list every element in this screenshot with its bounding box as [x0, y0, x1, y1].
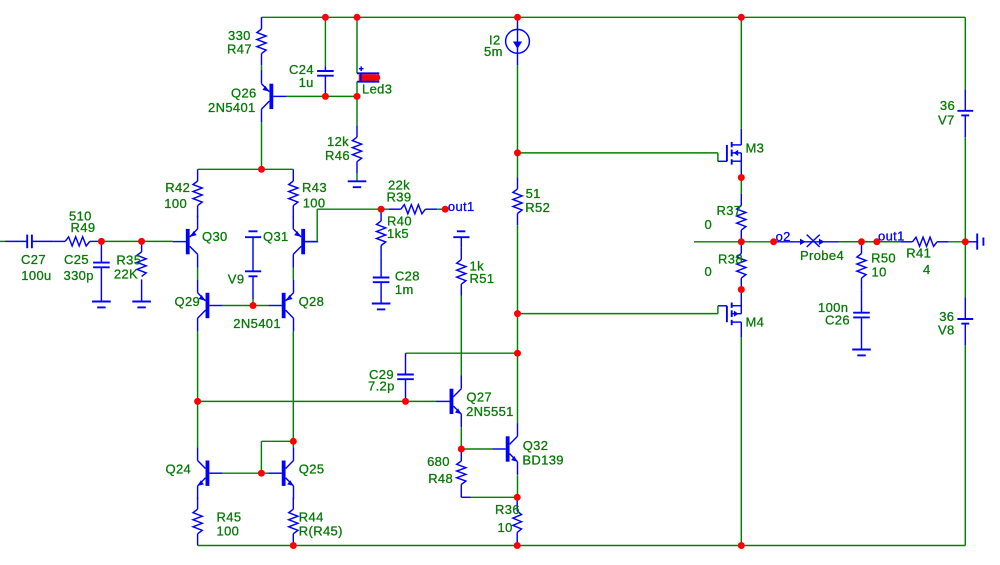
probe Probe4 — [777, 235, 901, 247]
resistor R35 — [137, 241, 146, 301]
wire mirror tie h — [261, 440, 293, 442]
wire R48 jog blue — [461, 496, 470, 498]
wire fb wire — [317, 208, 381, 210]
resistor R43 — [289, 169, 298, 217]
wire I2 down — [517, 65, 519, 153]
node R50 node — [858, 238, 865, 245]
wire Q27 emitter down — [460, 427, 462, 449]
svg-text:Q28: Q28 — [299, 294, 325, 309]
wire D down — [197, 401, 199, 447]
svg-text:100: 100 — [303, 196, 326, 211]
wire R39-out1 — [437, 208, 447, 210]
svg-text:1k5: 1k5 — [387, 226, 409, 241]
svg-text:7.2p: 7.2p — [368, 379, 395, 394]
wire Q28 base wire — [253, 305, 269, 307]
svg-text:22K: 22K — [114, 267, 138, 282]
svg-text:Q32: Q32 — [523, 438, 549, 453]
wire out stub left — [694, 241, 741, 243]
svg-text:Q24: Q24 — [166, 462, 192, 477]
node C29 bottom node — [402, 398, 409, 405]
battery output — [965, 234, 983, 250]
svg-text:BD139: BD139 — [522, 452, 564, 467]
node LED top — [354, 14, 361, 21]
svg-text:100u: 100u — [21, 268, 51, 283]
wire top rail — [262, 16, 966, 18]
wire Q29 base wire — [223, 305, 253, 307]
node rail R44 — [290, 542, 297, 549]
node M3 source node — [738, 174, 745, 181]
wire R47 top stub — [261, 17, 263, 18]
node C24 bottom — [322, 93, 329, 100]
wire right rail bottom — [964, 345, 966, 545]
svg-text:51: 51 — [526, 186, 541, 201]
svg-text:R52: R52 — [525, 200, 550, 215]
wire R48 jog — [471, 496, 518, 498]
resistor R47 — [257, 17, 266, 65]
node mirror base node — [250, 302, 257, 309]
svg-text:R(R45): R(R45) — [299, 523, 343, 538]
svg-text:1u: 1u — [299, 75, 314, 90]
node o2 node — [770, 238, 777, 245]
node fb node — [378, 206, 385, 213]
svg-text:R35: R35 — [116, 253, 141, 268]
wire Q31-Q28 col — [292, 268, 294, 280]
svg-text:R45: R45 — [217, 510, 242, 525]
node rail R36 — [514, 542, 521, 549]
resistor R51 — [457, 248, 466, 296]
node out1 node — [873, 238, 880, 245]
node out node — [738, 238, 745, 245]
node VAS bottom node — [514, 310, 521, 317]
svg-text:V7: V7 — [938, 113, 955, 128]
wire R46 top wire — [356, 96, 358, 125]
svg-text:R39: R39 — [387, 190, 412, 205]
current source I2 — [506, 17, 530, 65]
transistor Q25 — [269, 447, 294, 499]
resistor R42 — [193, 169, 202, 217]
resistor R50 — [857, 242, 866, 290]
svg-text:680: 680 — [427, 454, 450, 469]
resistor R49 — [53, 237, 101, 246]
svg-text:2N5401: 2N5401 — [208, 100, 256, 115]
wire R47-Q26 — [261, 65, 263, 71]
wire Q28 emitter down — [292, 331, 294, 441]
node out1 stub node — [442, 206, 449, 213]
led Led3 — [357, 17, 379, 81]
ground C26 ground — [852, 350, 871, 356]
node LED bottom — [354, 93, 361, 100]
resistor R45 — [193, 498, 202, 546]
transistor Q24 — [198, 447, 223, 499]
svg-text:10: 10 — [498, 520, 513, 535]
ground R35 ground — [132, 302, 151, 308]
node Q24 base node — [258, 470, 265, 477]
wire Q24 base wire — [223, 472, 262, 474]
svg-text:36: 36 — [940, 98, 955, 113]
wire out1 over — [839, 241, 901, 243]
wire C29 top wire — [406, 352, 518, 354]
svg-text:R41: R41 — [906, 246, 931, 261]
wire Q29 emitter down — [197, 331, 199, 401]
svg-text:R42: R42 — [165, 180, 190, 195]
ground R46 ground — [348, 181, 367, 187]
resistor R38 — [737, 242, 746, 290]
capacitor C25 — [93, 241, 110, 301]
wire VAS-C29 node wire — [517, 314, 519, 354]
wire A-B — [101, 240, 141, 242]
wire Q26 collector down — [261, 122, 263, 169]
wire M3 gate wire h — [518, 152, 718, 154]
capacitor C29 — [397, 353, 414, 401]
capacitor C24 — [317, 66, 334, 96]
svg-text:C27: C27 — [21, 252, 46, 267]
battery V7 — [957, 89, 973, 137]
node Q32 base node — [458, 446, 465, 453]
svg-text:Q30: Q30 — [202, 229, 228, 244]
svg-text:V8: V8 — [938, 323, 955, 338]
node right rail node — [962, 238, 969, 245]
node M3 top — [738, 14, 745, 21]
svg-text:100: 100 — [217, 523, 240, 538]
svg-text:R44: R44 — [299, 510, 324, 525]
capacitor C27 — [6, 235, 54, 249]
resistor R46 — [352, 125, 361, 173]
node input node A — [98, 238, 105, 245]
battery cell — [453, 231, 469, 248]
transistor Q32 — [493, 423, 518, 475]
wire Q27 collector up — [460, 296, 462, 376]
battery V8 — [957, 297, 973, 345]
node M4 top node — [738, 286, 745, 293]
wire bottom rail — [198, 545, 966, 547]
wire M4 gate wire h — [518, 313, 718, 315]
resistor R41 — [901, 237, 949, 246]
nmos M3 — [718, 129, 741, 178]
resistor R52 — [513, 177, 522, 225]
wire M3-R37 — [740, 178, 742, 194]
wire D-C29 wire — [198, 400, 437, 402]
node C24 top — [322, 14, 329, 21]
wire input stub — [0, 240, 6, 242]
wire M4 gate wire v — [717, 306, 719, 314]
node Q32 emitter node — [514, 494, 521, 501]
svg-text:M4: M4 — [746, 315, 765, 330]
wire R46-gnd — [356, 173, 358, 181]
transistor Q31 — [293, 216, 318, 268]
svg-text:out1: out1 — [448, 199, 475, 214]
svg-text:R47: R47 — [227, 42, 252, 57]
node VAS top node — [514, 149, 521, 156]
svg-text:out1: out1 — [878, 228, 905, 243]
wire V9-mirror — [252, 299, 254, 306]
wire fb-R39 — [381, 208, 390, 210]
ground C25 ground — [92, 302, 111, 308]
wire Q32 base wire — [461, 448, 492, 450]
svg-text:R38: R38 — [718, 252, 743, 267]
transistor Q30 — [173, 216, 198, 268]
svg-text:R51: R51 — [470, 271, 495, 286]
svg-text:2N5551: 2N5551 — [466, 404, 514, 419]
wire B-Q30 — [142, 240, 173, 242]
svg-text:R46: R46 — [325, 148, 350, 163]
resistor R48 — [457, 449, 466, 497]
wire out-o2 — [741, 241, 777, 243]
transistor Q26 — [262, 71, 287, 123]
wire C24 top wire — [324, 17, 326, 66]
node rail M4 — [738, 542, 745, 549]
capacitor C28 — [373, 257, 390, 303]
node C29 node — [514, 350, 521, 357]
battery V9 — [245, 231, 261, 299]
wire M4 source down — [740, 337, 742, 545]
resistor R44 — [289, 498, 298, 546]
wire right rail top — [964, 17, 966, 89]
svg-text:Q25: Q25 — [299, 462, 325, 477]
wire Q25 collector up — [292, 441, 294, 447]
resistor R36 — [513, 497, 522, 545]
wire Q32 collector up — [517, 353, 519, 423]
svg-text:M3: M3 — [746, 141, 765, 156]
wire Q31 base v — [316, 209, 318, 241]
svg-text:1m: 1m — [395, 282, 414, 297]
wire M3 gate wire v — [717, 153, 719, 162]
svg-text:10: 10 — [872, 264, 887, 279]
svg-text:R50: R50 — [871, 250, 896, 265]
capacitor C26 — [853, 290, 870, 350]
svg-text:0: 0 — [705, 217, 713, 232]
svg-text:C26: C26 — [825, 313, 850, 328]
wire right rail mid2 — [964, 242, 966, 298]
transistor Q28 — [269, 280, 294, 332]
node I2 top — [514, 14, 521, 21]
svg-text:4: 4 — [923, 262, 931, 277]
wire M3 drain up — [740, 17, 742, 129]
wire LED-R46 gap — [356, 82, 358, 97]
wire R41-rail — [949, 241, 966, 243]
svg-text:Probe4: Probe4 — [800, 248, 844, 263]
svg-text:Led3: Led3 — [362, 82, 392, 97]
node tail node — [258, 166, 265, 173]
svg-text:2N5401: 2N5401 — [233, 316, 281, 331]
wire emitter rail — [198, 168, 294, 170]
svg-text:C25: C25 — [64, 252, 89, 267]
resistor R39 — [389, 205, 437, 214]
wire Q30-Q29 col — [197, 268, 199, 280]
wire right rail mid — [964, 137, 966, 242]
svg-text:R37: R37 — [717, 203, 742, 218]
svg-text:R48: R48 — [428, 471, 453, 486]
pmos M4 — [718, 290, 741, 338]
Q31 base blue — [305, 241, 317, 243]
svg-text:V9: V9 — [228, 271, 245, 286]
wire R52 down — [517, 225, 519, 313]
resistor R37 — [737, 194, 746, 242]
node Q25 collector node — [290, 438, 297, 445]
wire mirror tie v — [260, 441, 262, 473]
svg-text:Q27: Q27 — [466, 390, 492, 405]
svg-text:100: 100 — [164, 196, 187, 211]
transistor Q27 — [436, 376, 461, 428]
transistor Q29 — [198, 280, 223, 332]
node node B — [138, 238, 145, 245]
svg-text:Q26: Q26 — [231, 85, 257, 100]
ground C28 ground — [372, 304, 391, 310]
svg-text:Q29: Q29 — [175, 294, 201, 309]
wire Q32 emitter down — [517, 475, 519, 497]
node node D — [194, 398, 201, 405]
svg-text:R43: R43 — [302, 180, 327, 195]
wire Q26 base wire — [287, 95, 358, 97]
svg-text:330p: 330p — [64, 268, 94, 283]
wire Q25 base wire — [261, 472, 268, 474]
wire node-R52 — [517, 153, 519, 177]
svg-text:Q31: Q31 — [263, 229, 289, 244]
svg-text:5m: 5m — [484, 44, 503, 59]
resistor R40 — [377, 209, 386, 257]
svg-text:R36: R36 — [495, 502, 520, 517]
svg-text:R49: R49 — [71, 220, 96, 235]
svg-text:0: 0 — [705, 264, 713, 279]
